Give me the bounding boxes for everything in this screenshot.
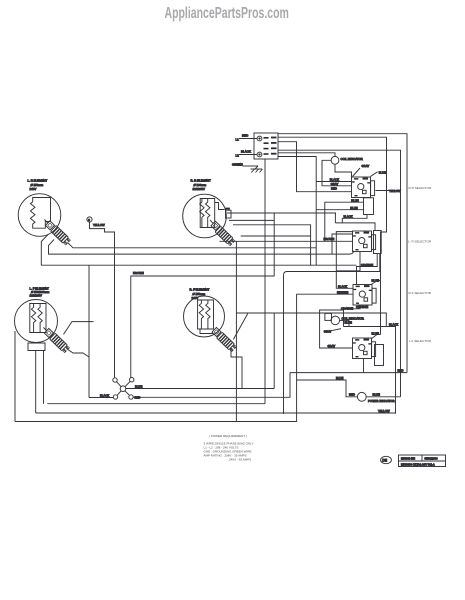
line brown to switch2: [131, 213, 274, 378]
svg-text:DE: DE: [382, 459, 387, 463]
wire P3 up to coil 2: [64, 322, 94, 335]
svg-text:BROWN: BROWN: [324, 237, 335, 241]
svg-text:240V: 240V: [192, 296, 199, 300]
svg-text:BROWN: BROWN: [338, 290, 349, 294]
wire to power indicator right: [278, 150, 401, 397]
svg-text:L1: L1: [236, 138, 240, 142]
svg-text:BLUE: BLUE: [135, 385, 142, 389]
wire to coil indicator 1: [278, 153, 335, 157]
svg-text:POWER INDICATOR: POWER INDICATOR: [368, 399, 394, 403]
svg-text:120/240V: 120/240V: [193, 187, 205, 191]
svg-text:BLUE: BLUE: [336, 376, 343, 380]
wire switch2 right output to switch3 top: [284, 254, 380, 415]
wire C2 right to black line: [340, 320, 349, 326]
footer table: [399, 455, 446, 467]
svg-text:BLACK: BLACK: [330, 177, 339, 181]
coil indicator C2: [324, 313, 364, 333]
node marker yellow: [87, 217, 105, 227]
wire P2 upper loop: [229, 219, 274, 221]
svg-text:L. R SELECTOR: L. R SELECTOR: [408, 240, 432, 244]
long line from element4 to right column: [236, 313, 386, 327]
wire star red right: [133, 373, 290, 398]
connector plug P3: [44, 328, 70, 354]
bottom line 1: [47, 403, 265, 405]
bracket under E3: [28, 343, 45, 353]
svg-text:RED: RED: [242, 134, 249, 138]
wire power indicator right: [366, 396, 400, 398]
wire E3 left down: [14, 331, 16, 422]
svg-text:120/240V: 120/240V: [30, 294, 42, 298]
wire P4 up to long line: [233, 314, 247, 340]
svg-text:RED: RED: [331, 187, 337, 191]
terminal block TB: [254, 133, 278, 159]
switch R F selector S3: [337, 278, 381, 310]
svg-text:M500000 CKTAG ASY 001-A: M500000 CKTAG ASY 001-A: [401, 462, 435, 466]
switch L R selector S2: [324, 231, 376, 267]
svg-text:GRAY: GRAY: [324, 329, 332, 333]
svg-text:GREEN: GREEN: [232, 163, 243, 167]
svg-text:BLUE: BLUE: [372, 332, 379, 336]
wire to switch1 black input: [278, 142, 352, 192]
wire black line right: [344, 323, 399, 414]
bottom line 3 to switch3 brown: [15, 290, 353, 421]
wire vertical to star black: [88, 265, 90, 397]
wire E4 loop down to star blue: [273, 313, 275, 389]
svg-text:COIL INDICATOR: COIL INDICATOR: [341, 157, 363, 161]
svg-text:GRAY: GRAY: [362, 164, 370, 168]
svg-text:BLACK: BLACK: [389, 323, 398, 327]
wire to switch1 red input: [278, 157, 316, 266]
wire switch1 black input: [316, 181, 351, 183]
wire E4 long vertical: [235, 241, 237, 421]
svg-text:YELLOW: YELLOW: [93, 223, 105, 227]
power requirement note: [204, 434, 254, 462]
coil indicator C1: [331, 156, 369, 176]
svg-text:BLUE: BLUE: [350, 206, 357, 210]
node L2: [236, 150, 258, 158]
svg-text:BLUE: BLUE: [373, 392, 380, 396]
component on E2 right wire: [225, 208, 231, 218]
wire bracket down 1: [35, 353, 37, 413]
wire L2 upper branch: [278, 137, 387, 334]
svg-text:BROWN: BROWN: [133, 271, 144, 275]
svg-text:240V - 35 AMPS: 240V - 35 AMPS: [229, 457, 251, 461]
switch L F selector S4: [353, 332, 404, 373]
svg-text:( POWER REQUIREMENT ): ( POWER REQUIREMENT ): [209, 434, 247, 438]
switch R R selector S1: [330, 170, 401, 214]
wire terminal block bottom down: [264, 159, 266, 404]
wire P3 down black: [67, 349, 90, 358]
logo oval: [381, 456, 392, 463]
svg-text:BLUE: BLUE: [379, 170, 386, 174]
svg-text:AppliancePartsPros.com: AppliancePartsPros.com: [165, 4, 289, 22]
svg-text:L2: L2: [236, 154, 240, 158]
wire switch4 bottom to red line: [363, 359, 365, 373]
wire E1 to switch1 blue line: [68, 243, 317, 248]
connector plug P2: [210, 220, 235, 246]
selector labels: [408, 186, 432, 343]
wire C1 left to switch1 gray input: [322, 160, 352, 186]
svg-text:05/00/2004: 05/00/2004: [425, 457, 439, 461]
connector plug P4: [200, 327, 237, 352]
star junction SP: [100, 378, 142, 400]
node L1: [236, 134, 258, 142]
wire power indicator left: [297, 376, 358, 397]
wire E1 to line B: [41, 234, 356, 265]
svg-text:R F SELECTOR: R F SELECTOR: [409, 291, 432, 295]
svg-text:BLUE: BLUE: [351, 199, 358, 203]
svg-text:BLACK: BLACK: [100, 393, 109, 397]
wire P2 mid: [241, 235, 311, 237]
wire star blue right: [126, 388, 274, 390]
wire E1 to line A: [49, 240, 354, 255]
wire switch1 blue lower outputs: [316, 199, 364, 242]
element E1 left rear: [18, 179, 61, 237]
svg-text:BLACK: BLACK: [241, 150, 251, 154]
svg-text:240V: 240V: [30, 187, 37, 191]
svg-text:BLACK: BLACK: [338, 284, 347, 288]
element E2 right rear: [183, 179, 227, 238]
wire P2 second: [233, 225, 311, 265]
wire marker to star junction: [90, 222, 115, 378]
wire switch1 bottom to switch2 top: [335, 213, 375, 231]
element E4 right front: [184, 288, 225, 338]
wire E2 right to switch1 bottom loop: [227, 212, 336, 214]
svg-text:RED: RED: [349, 393, 355, 397]
wire pair into switch2 left: [332, 232, 353, 289]
svg-text:M50000-NN: M50000-NN: [401, 457, 415, 461]
ground: [232, 163, 263, 173]
svg-text:BLACK: BLACK: [344, 214, 353, 218]
red line horizontal: [290, 372, 407, 374]
wire L1 to right column: [278, 134, 407, 373]
wire P4 low: [231, 347, 242, 389]
wire switch1 yellow output: [376, 190, 401, 192]
svg-text:R R SELECTOR: R R SELECTOR: [409, 186, 433, 190]
wire switch2 bottom: [336, 252, 360, 271]
wire C2 feed to switch4 gray input: [320, 310, 353, 348]
wire C1 bottom to switch1 top: [335, 164, 352, 177]
svg-text:RED: RED: [398, 368, 404, 372]
svg-text:GRAY: GRAY: [328, 344, 336, 348]
wire bracket down 2: [43, 351, 45, 404]
power indicator lamp: [357, 392, 394, 403]
wire switch3 bottom: [344, 305, 361, 327]
svg-text:BLUE: BLUE: [345, 320, 352, 324]
switch2 right block: [374, 231, 382, 254]
wire P2 low: [219, 240, 352, 242]
svg-text:L F SELECTOR: L F SELECTOR: [409, 339, 432, 343]
svg-text:GRAY: GRAY: [331, 182, 339, 186]
connector plug P1: [45, 220, 71, 246]
svg-text:YELLOW: YELLOW: [378, 409, 390, 413]
bottom line 2 yellow: [36, 409, 396, 413]
element E3 left front: [15, 287, 58, 343]
wire star black left: [89, 397, 113, 399]
